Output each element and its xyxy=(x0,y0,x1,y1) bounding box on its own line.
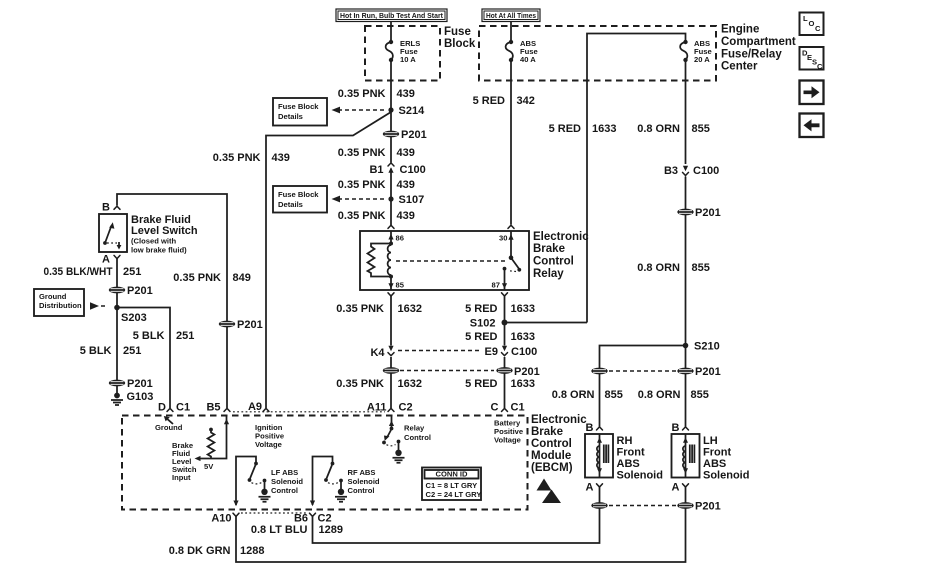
svg-text:251: 251 xyxy=(123,266,141,278)
connector P201 (1632 wire) xyxy=(383,367,399,374)
connector B3 C100 xyxy=(664,165,719,177)
EBCM RF ABS solenoid control switch xyxy=(310,457,347,507)
svg-text:B3: B3 xyxy=(664,165,678,177)
wire B6 to RH solenoid A xyxy=(313,487,600,543)
svg-text:RF ABS: RF ABS xyxy=(348,468,376,477)
button DESC xyxy=(800,47,824,71)
svg-text:439: 439 xyxy=(397,88,415,100)
label 0.8 ORN 855 (top) xyxy=(637,123,710,135)
LH front ABS solenoid box xyxy=(672,434,700,478)
svg-text:0.35 PNK: 0.35 PNK xyxy=(338,210,386,222)
label 0.35 PNK 439 (1) xyxy=(338,88,415,100)
svg-text:O: O xyxy=(809,19,815,28)
svg-text:B5: B5 xyxy=(206,402,220,414)
terminal B5 xyxy=(206,402,230,414)
svg-text:Control: Control xyxy=(271,486,298,495)
svg-text:Control: Control xyxy=(533,256,574,268)
svg-text:1633: 1633 xyxy=(511,303,535,315)
svg-text:Details: Details xyxy=(278,200,303,209)
svg-text:439: 439 xyxy=(397,210,415,222)
button back (left arrow) xyxy=(800,114,824,138)
svg-text:E9: E9 xyxy=(485,346,498,358)
fuse ERLS 10A xyxy=(386,39,421,64)
svg-text:B: B xyxy=(672,422,680,434)
relay mechanical link (dashed) xyxy=(396,260,508,262)
ESD sensitive device symbol xyxy=(537,479,562,504)
label 5 BLK 251 (branch) xyxy=(133,330,195,342)
label Hot At All Times xyxy=(482,9,540,22)
svg-text:RH: RH xyxy=(617,435,633,447)
svg-text:C: C xyxy=(491,402,499,414)
relay pin 87 inner wire xyxy=(492,269,508,290)
svg-text:C: C xyxy=(815,24,821,33)
svg-text:0.8 ORN: 0.8 ORN xyxy=(637,262,680,274)
svg-text:40 A: 40 A xyxy=(520,55,536,64)
node S214 xyxy=(388,105,425,117)
EBCM dashed box xyxy=(122,416,528,510)
svg-text:A: A xyxy=(672,482,680,494)
dashed reference arrow to fuse block details (upper) xyxy=(332,107,385,114)
label 0.35 PNK 1632 (lower) xyxy=(336,378,422,390)
svg-text:LF ABS: LF ABS xyxy=(271,468,298,477)
wire S203 branch to EBCM ground D xyxy=(117,308,170,409)
wire relay 85 to EBCM A11 xyxy=(390,296,392,408)
fuse ABS 20A xyxy=(680,39,712,64)
svg-text:Brake: Brake xyxy=(533,243,565,255)
wire A10 to LH solenoid A xyxy=(236,487,686,562)
wire ABS 40A fuse feed xyxy=(510,22,512,43)
relay pin 86 inner wire xyxy=(388,231,404,244)
connector P201 (orn 855) xyxy=(677,207,720,219)
svg-text:C1 = 8 LT GRY: C1 = 8 LT GRY xyxy=(426,481,478,490)
terminal A10 xyxy=(211,513,239,525)
label 0.35 PNK 439 (3) xyxy=(338,179,415,191)
label LF ABS Solenoid Control xyxy=(271,468,303,495)
relay resistor xyxy=(368,244,392,277)
fuse block details box (upper) xyxy=(273,98,327,126)
svg-text:0.35 PNK: 0.35 PNK xyxy=(173,272,221,284)
svg-text:849: 849 xyxy=(233,272,251,284)
svg-text:1288: 1288 xyxy=(240,545,264,557)
svg-text:0.8 ORN: 0.8 ORN xyxy=(638,389,681,401)
svg-text:B: B xyxy=(586,422,594,434)
svg-text:Solenoid: Solenoid xyxy=(703,470,749,482)
svg-text:Engine: Engine xyxy=(721,24,759,36)
svg-text:S107: S107 xyxy=(399,194,425,206)
label 0.8 ORN 855 (RH) xyxy=(552,389,623,401)
svg-text:30: 30 xyxy=(499,234,507,243)
label 0.35 PNK 849 xyxy=(173,272,251,284)
svg-text:Block: Block xyxy=(444,38,476,50)
wire brake switch B to pnk 849 drop xyxy=(117,194,227,408)
svg-text:B6: B6 xyxy=(294,513,308,525)
svg-text:Fuse Block: Fuse Block xyxy=(278,102,319,111)
svg-text:5V: 5V xyxy=(204,462,214,471)
svg-text:5 BLK: 5 BLK xyxy=(133,330,165,342)
label 0.35 PNK 439 (4) xyxy=(338,210,415,222)
svg-text:D: D xyxy=(158,402,166,414)
svg-text:B1: B1 xyxy=(369,164,383,176)
connector P201 (1633 wire) xyxy=(496,366,539,378)
svg-text:P201: P201 xyxy=(695,366,721,378)
svg-text:L: L xyxy=(803,14,808,23)
svg-text:P201: P201 xyxy=(127,285,153,297)
svg-text:855: 855 xyxy=(692,123,710,135)
svg-text:0.35 PNK: 0.35 PNK xyxy=(336,378,384,390)
engine compartment fuse/relay center (dashed box) xyxy=(479,26,716,81)
ground G103 xyxy=(111,391,153,405)
terminal B6 C2 xyxy=(294,513,332,525)
svg-text:C: C xyxy=(817,62,823,71)
svg-text:Voltage: Voltage xyxy=(255,440,282,449)
svg-text:251: 251 xyxy=(123,345,141,357)
wire ERLS fuse to relay pin 86 xyxy=(390,60,392,225)
label 0.8 DK GRN 1288 xyxy=(169,545,265,557)
svg-text:Voltage: Voltage xyxy=(494,436,521,445)
node S102 and link to engine box bus xyxy=(470,318,587,330)
connector K4 C100 xyxy=(370,346,394,359)
svg-text:5 RED: 5 RED xyxy=(549,123,581,135)
svg-text:ABS: ABS xyxy=(617,458,640,470)
svg-text:Level Switch: Level Switch xyxy=(131,225,198,237)
label 0.35 PNK 1632 (upper) xyxy=(336,303,422,315)
svg-text:5 RED: 5 RED xyxy=(465,378,497,390)
dashed connector line K4 to E9 xyxy=(398,350,482,352)
svg-text:G103: G103 xyxy=(127,391,154,403)
terminal B (LH solenoid) xyxy=(672,422,689,434)
label Fuse Block xyxy=(444,26,476,50)
connector P201 (pnk 439) xyxy=(383,129,427,141)
label LH Front ABS Solenoid xyxy=(703,435,749,482)
label 5 RED 1633 (mid) xyxy=(465,331,535,343)
svg-text:B: B xyxy=(102,202,110,214)
connector P201 (RH branch) xyxy=(591,368,607,375)
svg-text:855: 855 xyxy=(605,389,623,401)
svg-text:C100: C100 xyxy=(693,165,719,177)
svg-text:1632: 1632 xyxy=(398,303,422,315)
svg-text:Hot In Run, Bulb Test And Star: Hot In Run, Bulb Test And Start xyxy=(340,11,443,20)
svg-text:P201: P201 xyxy=(237,319,263,331)
svg-text:P201: P201 xyxy=(695,501,721,513)
connector P201 (RH return) xyxy=(591,502,607,509)
svg-text:Solenoid: Solenoid xyxy=(617,470,663,482)
label 0.35 BLK/WHT 251 xyxy=(44,266,142,278)
label RH Front ABS Solenoid xyxy=(617,435,663,482)
label 5 RED 1633 (lower) xyxy=(465,378,535,390)
svg-text:Details: Details xyxy=(278,112,303,121)
svg-text:342: 342 xyxy=(517,95,535,107)
label 0.8 ORN 855 (mid) xyxy=(637,262,710,274)
label 0.8 LT BLU 1289 xyxy=(251,524,343,536)
svg-text:10 A: 10 A xyxy=(400,55,416,64)
brake fluid level switch box xyxy=(99,214,127,252)
svg-text:(EBCM): (EBCM) xyxy=(531,462,573,474)
relay pin 85 inner wire xyxy=(388,277,404,291)
svg-text:S102: S102 xyxy=(470,318,496,330)
label Hot In Run, Bulb Test And Start xyxy=(336,9,447,22)
svg-text:P201: P201 xyxy=(695,207,721,219)
label Ignition Positive Voltage xyxy=(255,423,284,449)
svg-text:Distribution: Distribution xyxy=(39,301,82,310)
terminal C C1 xyxy=(491,402,525,414)
dashed reference arrow to fuse block details (lower) xyxy=(332,196,385,203)
wire ERLS fuse feed xyxy=(390,22,392,43)
svg-text:0.8 DK GRN: 0.8 DK GRN xyxy=(169,545,231,557)
ground distribution reference box xyxy=(34,289,108,316)
label Battery Positive Voltage xyxy=(494,419,523,445)
wire 20A fuse to LH solenoid B xyxy=(685,60,687,427)
dotted terminal strip line (bottom) xyxy=(241,512,306,514)
svg-text:Electronic: Electronic xyxy=(533,231,589,243)
svg-text:Solenoid: Solenoid xyxy=(271,477,303,486)
svg-text:C100: C100 xyxy=(511,346,537,358)
svg-text:A10: A10 xyxy=(211,513,231,525)
svg-text:0.35 PNK: 0.35 PNK xyxy=(338,179,386,191)
svg-text:C2: C2 xyxy=(399,402,413,414)
svg-text:0.35 BLK/WHT: 0.35 BLK/WHT xyxy=(44,266,113,278)
svg-text:S214: S214 xyxy=(399,105,426,117)
label Electronic Brake Control Relay xyxy=(533,231,589,280)
svg-text:S210: S210 xyxy=(694,341,720,353)
connector chevron below relay pin 85 xyxy=(388,293,394,296)
svg-text:0.35 PNK: 0.35 PNK xyxy=(336,303,384,315)
terminal A (brake fluid level switch) xyxy=(102,254,120,266)
fuse block details box (lower) xyxy=(273,186,327,213)
svg-text:P201: P201 xyxy=(127,378,153,390)
terminal B (brake fluid level switch) xyxy=(102,202,120,214)
wire S210 branch to RH solenoid B xyxy=(600,346,686,427)
svg-text:Front: Front xyxy=(703,447,731,459)
svg-text:87: 87 xyxy=(492,281,500,290)
dashed P201 line right pair xyxy=(609,370,676,372)
label 5 RED 1633 (engine box drop) xyxy=(549,123,617,135)
svg-text:P201: P201 xyxy=(514,366,540,378)
label 5 BLK 251 (main) xyxy=(80,345,142,357)
svg-text:Input: Input xyxy=(172,473,191,482)
EBCM relay control switch (A11) xyxy=(382,416,404,463)
svg-text:C100: C100 xyxy=(400,164,426,176)
svg-text:1633: 1633 xyxy=(592,123,616,135)
svg-text:86: 86 xyxy=(396,234,404,243)
svg-text:439: 439 xyxy=(397,179,415,191)
svg-text:Brake: Brake xyxy=(531,426,563,438)
label Relay Control xyxy=(404,424,431,443)
label 5 RED 1633 (upper) xyxy=(465,303,535,315)
svg-text:439: 439 xyxy=(272,152,290,164)
label Electronic Brake Control Module (EBCM) xyxy=(531,414,587,474)
relay coil xyxy=(388,242,393,279)
connector P201 (LH main) xyxy=(677,366,720,378)
svg-text:1633: 1633 xyxy=(511,378,535,390)
label 0.35 PNK 439 (2) xyxy=(338,147,415,159)
connector chevron relay pin 86 xyxy=(388,225,394,228)
svg-text:C1: C1 xyxy=(511,402,525,414)
svg-text:0.8 LT BLU: 0.8 LT BLU xyxy=(251,524,308,536)
wire S214 branch diagonal to ignition feed xyxy=(266,112,391,408)
label Engine Compartment Fuse/Relay Center xyxy=(721,24,796,73)
svg-text:0.35 PNK: 0.35 PNK xyxy=(338,88,386,100)
svg-text:Ground: Ground xyxy=(155,423,183,432)
svg-text:low brake fluid): low brake fluid) xyxy=(131,246,187,255)
wire switch A to G103 xyxy=(116,259,118,393)
connector chevron relay pin 30 xyxy=(508,225,514,228)
svg-text:C2 = 24 LT GRY: C2 = 24 LT GRY xyxy=(426,490,482,499)
svg-text:Ground: Ground xyxy=(39,292,67,301)
svg-text:ABS: ABS xyxy=(703,458,726,470)
svg-text:Fuse/Relay: Fuse/Relay xyxy=(721,49,782,61)
EBCM LF ABS solenoid control switch xyxy=(233,457,270,507)
terminal A (LH solenoid) xyxy=(672,482,689,494)
svg-text:1633: 1633 xyxy=(511,331,535,343)
connector P201 (blk 251 upper) xyxy=(109,285,153,297)
terminal A (RH solenoid) xyxy=(586,482,603,494)
label 0.35 PNK 439 (branch) xyxy=(213,152,290,164)
svg-text:LH: LH xyxy=(703,435,718,447)
svg-text:C2: C2 xyxy=(318,513,332,525)
svg-text:439: 439 xyxy=(397,147,415,159)
connector P201 (blk 251 lower) xyxy=(109,378,153,390)
terminal A9 xyxy=(248,401,269,413)
svg-text:Center: Center xyxy=(721,61,758,73)
EBCM ground pin arrow (D) xyxy=(155,416,183,432)
svg-text:Electronic: Electronic xyxy=(531,414,587,426)
svg-text:5 BLK: 5 BLK xyxy=(80,345,112,357)
label Brake Fluid Level Switch xyxy=(131,214,198,255)
svg-text:0.35 PNK: 0.35 PNK xyxy=(213,152,261,164)
svg-text:855: 855 xyxy=(692,262,710,274)
svg-text:Relay: Relay xyxy=(533,268,564,280)
label RF ABS Solenoid Control xyxy=(348,468,380,495)
fuse ABS 40A xyxy=(506,39,538,64)
relay pin 30 inner wire and armature xyxy=(499,231,521,272)
svg-text:0.8 ORN: 0.8 ORN xyxy=(552,389,595,401)
button LOC xyxy=(800,13,824,36)
svg-text:Module: Module xyxy=(531,450,571,462)
CONN ID table xyxy=(422,468,481,501)
connector B1 C100 xyxy=(369,163,425,176)
RH solenoid coil xyxy=(597,434,609,477)
label 5 RED 342 xyxy=(473,95,535,107)
wire relay 87 to EBCM C xyxy=(504,296,506,408)
svg-text:Front: Front xyxy=(617,447,645,459)
dashed P201 line left pair xyxy=(400,370,494,372)
svg-text:C1: C1 xyxy=(176,402,190,414)
svg-text:S203: S203 xyxy=(121,312,147,324)
svg-text:5 RED: 5 RED xyxy=(465,331,497,343)
svg-text:855: 855 xyxy=(691,389,709,401)
button next (right arrow) xyxy=(800,81,824,105)
svg-text:Control: Control xyxy=(404,433,431,442)
svg-text:Control: Control xyxy=(348,486,375,495)
svg-text:Control: Control xyxy=(531,438,572,450)
connector P201 (LH return) xyxy=(677,501,720,513)
svg-text:5 RED: 5 RED xyxy=(465,303,497,315)
label 0.8 ORN 855 (LH) xyxy=(638,389,709,401)
EBCM brake fluid switch input circuit (B5) xyxy=(195,416,230,472)
svg-text:1632: 1632 xyxy=(398,378,422,390)
wire engine box inner bus xyxy=(587,34,686,323)
connector E9 C100 xyxy=(485,346,538,358)
svg-text:0.35 PNK: 0.35 PNK xyxy=(338,147,386,159)
dashed P201 line bottom pair xyxy=(609,505,676,507)
RH front ABS solenoid box xyxy=(585,434,613,478)
svg-text:Fuse Block: Fuse Block xyxy=(278,190,319,199)
svg-text:Solenoid: Solenoid xyxy=(348,477,380,486)
LH solenoid coil xyxy=(683,434,695,477)
svg-text:K4: K4 xyxy=(370,347,385,359)
svg-text:Compartment: Compartment xyxy=(721,36,796,48)
svg-text:5 RED: 5 RED xyxy=(473,95,505,107)
svg-text:251: 251 xyxy=(176,330,194,342)
svg-text:A: A xyxy=(102,254,110,266)
svg-text:85: 85 xyxy=(396,281,405,290)
svg-text:A: A xyxy=(586,482,594,494)
svg-text:P201: P201 xyxy=(401,129,427,141)
dotted terminal strip line (top) xyxy=(233,411,385,413)
connector P201 (pnk 849) xyxy=(219,319,263,331)
svg-text:(Closed with: (Closed with xyxy=(131,237,177,246)
fuse block (dashed box) xyxy=(365,26,440,81)
svg-text:CONN ID: CONN ID xyxy=(435,470,468,479)
node S210 xyxy=(683,341,720,353)
node S107 xyxy=(388,194,424,206)
node S203 xyxy=(114,305,147,324)
svg-text:Fuse: Fuse xyxy=(444,26,471,38)
svg-text:20 A: 20 A xyxy=(694,55,710,64)
brake fluid level switch contacts xyxy=(103,222,121,249)
terminal D C1 xyxy=(158,402,190,414)
svg-text:Relay: Relay xyxy=(404,424,425,433)
terminal A11 C2 xyxy=(367,402,413,414)
label Brake Fluid Level Switch Input xyxy=(172,441,197,482)
svg-text:0.8 ORN: 0.8 ORN xyxy=(637,123,680,135)
svg-text:Hot At All Times: Hot At All Times xyxy=(486,11,536,20)
electronic brake control relay box xyxy=(360,231,529,290)
wire 40A fuse to relay pin 30 xyxy=(510,60,512,225)
terminal B (RH solenoid) xyxy=(586,422,603,434)
connector chevron below relay pin 87 xyxy=(502,293,508,296)
svg-text:1289: 1289 xyxy=(319,524,343,536)
